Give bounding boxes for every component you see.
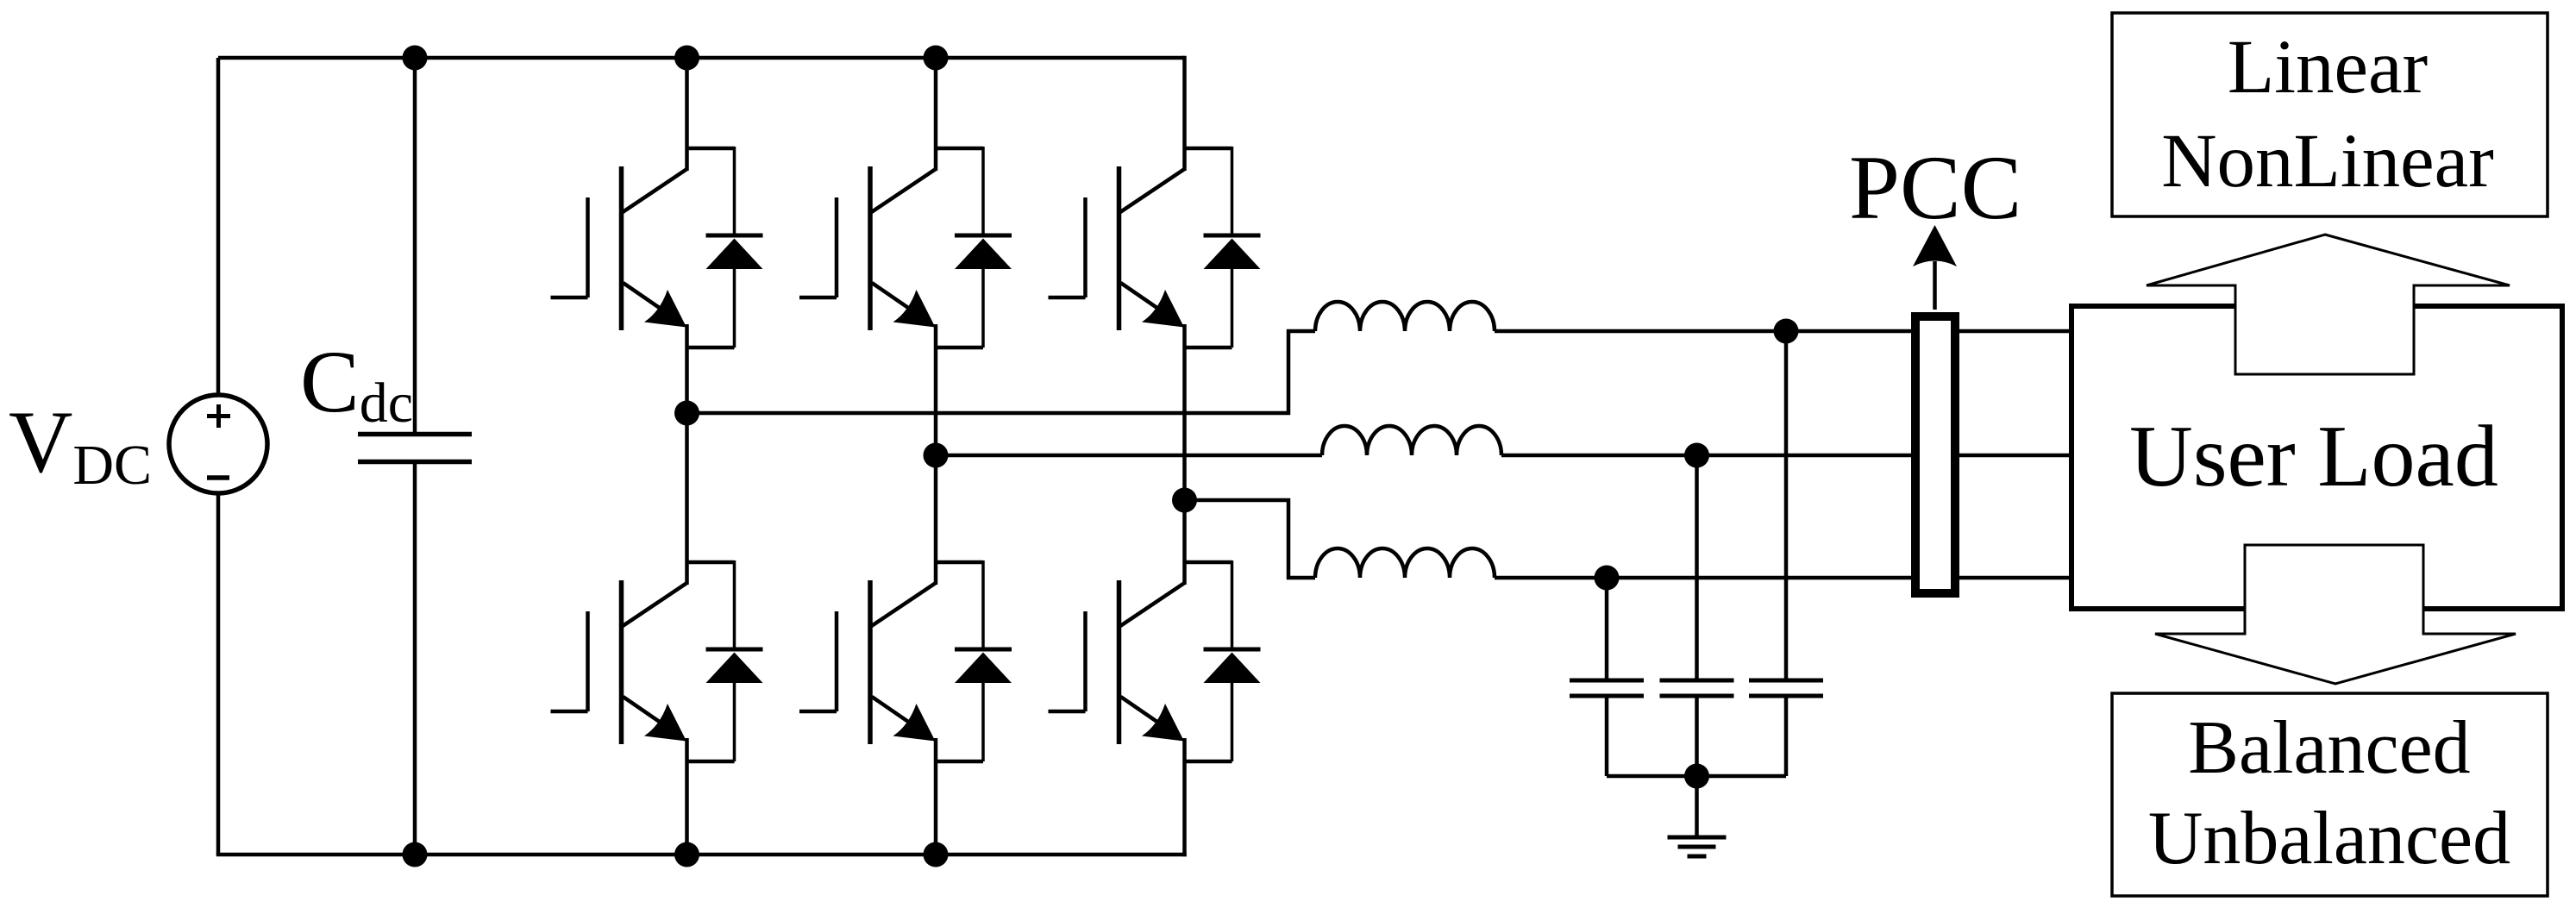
wire: leg C midpoint vertical [1182,324,1187,585]
wire: phase B PCC to User Load [1959,454,2071,458]
wire: leg A collector from top rail [685,58,689,171]
node: bottom rail at leg A [674,842,699,867]
wire: phase A PCC to User Load [1959,329,2071,334]
wire: DC source top lead [216,58,221,396]
node: bottom rail at leg B [924,842,949,867]
node: top rail at Cdc [403,46,428,71]
capacitor Cf1 bottom lead [1605,698,1609,776]
wire: leg C collector from top rail corner [1182,56,1187,171]
voltage source VDC circle [169,395,267,493]
wire: shunt branch phase B down [1695,455,1699,679]
node: capacitor bus ground tap [1684,764,1709,789]
inductor Lb filter phase B [1322,426,1501,455]
wire: DC source bottom lead [216,492,221,855]
VDC plus sign [207,404,230,428]
capacitor Cdc plates [358,435,472,462]
svg-text:Cdc: Cdc [300,333,413,435]
svg-text:User Load: User Load [2129,408,2498,505]
wire: phase B to PCC [1501,454,1913,458]
wire: phase B output [936,454,1322,458]
node: phase C shunt tap [1595,566,1620,591]
wire: leg B collector from top rail [934,58,938,171]
wire: leg A midpoint vertical [685,324,689,585]
node: phase C midpoint [1172,488,1197,513]
wire: shunt branch phase A down [1784,331,1789,679]
PCC measurement bar [1915,316,1955,593]
svg-text:PCC: PCC [1849,137,2021,238]
wire: phase A output with jog up [687,331,1316,413]
node: bottom rail at Cdc [403,842,428,867]
capacitor Cf3 filter (right) plates [1749,680,1823,696]
IGBT Q3 upper phase-C with antiparallel diode D3 [1049,147,1261,348]
wire: shunt branch phase C down [1605,578,1609,679]
svg-text:NonLinear: NonLinear [2161,119,2494,204]
wire: leg C lower emitter to bottom rail [1182,738,1187,856]
ground symbol [1668,837,1727,856]
IGBT Q4 lower phase-A with antiparallel diode D4 [551,560,763,761]
IGBT Q6 lower phase-C with antiparallel diode D6 [1049,560,1261,761]
node: phase B midpoint [924,443,949,468]
svg-text:Linear: Linear [2228,25,2428,110]
capacitor Cdc bottom lead [413,463,417,855]
svg-text:VDC: VDC [9,393,152,497]
arrow up to load types [2147,235,2510,374]
VDC minus sign [207,475,229,480]
Linear/NonLinear box [2112,13,2548,216]
wire: ground stem [1695,776,1699,836]
node: phase B shunt tap [1684,443,1709,468]
wire: capacitor bottom bus [1607,774,1786,779]
svg-text:Balanced: Balanced [2188,706,2470,790]
IGBT Q1 upper phase-A with antiparallel diode D1 [551,147,763,348]
capacitor Cf2 bottom lead [1695,698,1699,776]
IGBT Q2 upper phase-B with antiparallel diode D2 [799,147,1012,348]
PCC arrow stem [1933,261,1937,310]
capacitor Cf3 bottom lead [1784,698,1789,776]
IGBT Q5 lower phase-B with antiparallel diode D5 [799,560,1012,761]
wire: positive DC top rail [218,56,1185,60]
inductor La filter phase A [1315,302,1495,331]
capacitor Cdc top lead [413,58,417,433]
arrow down to load balance [2155,545,2516,684]
wire: leg B lower emitter to bottom rail [934,738,938,855]
wire: phase C to PCC [1495,576,1913,580]
wire: negative DC bottom rail [216,853,1187,857]
capacitor Cf2 filter (middle) plates [1660,680,1734,696]
wire: phase C PCC to User Load [1959,576,2071,580]
svg-text:Unbalanced: Unbalanced [2148,797,2510,880]
node: phase A midpoint [674,401,699,426]
Balanced/Unbalanced box [2112,693,2548,896]
wire: leg B midpoint vertical [934,324,938,585]
node: top rail at leg A [674,46,699,71]
node: top rail at leg B [924,46,949,71]
inductor Lc filter phase C [1315,548,1495,578]
wire: phase C output with jog down [1185,500,1316,578]
User Load box [2071,306,2562,609]
wire: leg A lower emitter to bottom rail [685,738,689,855]
node: phase A shunt tap [1774,319,1799,344]
PCC arrow head [1913,225,1957,266]
capacitor Cf1 filter (left) plates [1570,680,1644,696]
wire: phase A to PCC [1495,329,1913,334]
